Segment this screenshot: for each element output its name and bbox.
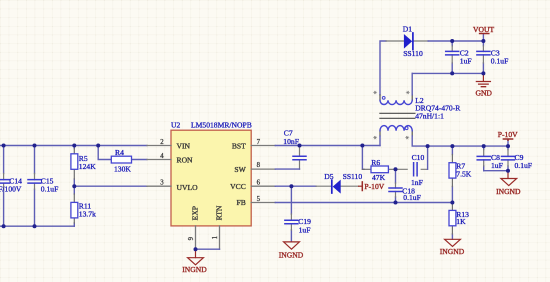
node BST/C7 junction <box>298 144 302 148</box>
capacitor C3 <box>477 41 508 73</box>
svg-text:INGND: INGND <box>496 187 521 196</box>
capacitor C2 <box>446 41 472 73</box>
L2 core <box>380 113 415 118</box>
svg-text:0.1uF: 0.1uF <box>515 161 533 170</box>
capacitor C19 <box>285 214 311 235</box>
svg-text:47nH/1:1: 47nH/1:1 <box>415 112 444 121</box>
L2 polarity marks upper <box>373 91 376 94</box>
transformer L2 <box>373 41 461 139</box>
svg-text:P-10V: P-10V <box>364 182 384 191</box>
svg-text:R6: R6 <box>371 158 380 167</box>
node BST/R6 junction <box>360 144 364 148</box>
svg-text:RON: RON <box>177 155 194 164</box>
node C9 bottom junction <box>506 169 510 173</box>
diode D1 <box>386 25 428 59</box>
svg-text:EXP: EXP <box>191 206 200 220</box>
svg-text:SW: SW <box>234 165 246 174</box>
capacitor C18 <box>389 169 421 202</box>
wire UVLO line <box>74 185 147 187</box>
node EXP junction <box>194 247 198 251</box>
svg-text:INGND: INGND <box>440 247 465 256</box>
node C3/VOUT junction <box>481 39 485 43</box>
svg-text:R4: R4 <box>115 148 124 157</box>
svg-text:INGND: INGND <box>182 265 207 274</box>
svg-text:0.1uF: 0.1uF <box>41 185 59 194</box>
capacitor C9 <box>502 146 533 171</box>
wire D1 cathode run <box>428 40 483 42</box>
svg-text:1K: 1K <box>456 217 466 226</box>
node C9/P-10V junction <box>506 144 510 148</box>
IC U2 LM5018MR/NOPB <box>171 120 252 225</box>
resistor R6 <box>362 158 395 182</box>
L2 polarity marks lower <box>373 136 376 139</box>
svg-text:U2: U2 <box>171 120 180 129</box>
resistor R11 <box>71 186 96 226</box>
pin 7 BST <box>232 139 275 151</box>
ground INGND under C8/C9 <box>496 171 521 196</box>
svg-text:9: 9 <box>188 236 195 240</box>
pin 1 RTN <box>212 205 224 249</box>
svg-text:5: 5 <box>257 196 261 203</box>
node C8 top junction <box>482 144 486 148</box>
ground GND earth <box>475 73 492 97</box>
power port P-10V at D5 <box>359 182 385 191</box>
pin 5 FB <box>237 196 276 207</box>
svg-text:VOUT: VOUT <box>473 25 494 34</box>
wire C19 riser <box>290 186 292 242</box>
resistor R5 <box>71 146 96 187</box>
wire C10 riser <box>427 146 429 169</box>
node VCC/C19 junction <box>289 184 293 188</box>
pin 8 SW <box>234 162 275 174</box>
svg-text:1uF: 1uF <box>460 56 472 65</box>
pin 4 RON <box>147 153 193 165</box>
diode D5 <box>316 172 362 194</box>
wire VCC run <box>275 185 316 187</box>
wire C14 riser <box>3 146 5 227</box>
svg-text:4: 4 <box>160 153 164 160</box>
capacitor C7 <box>283 129 306 169</box>
svg-text:7: 7 <box>257 139 261 146</box>
svg-text:1uF: 1uF <box>491 161 503 170</box>
ground INGND under C19 <box>279 242 304 260</box>
svg-text:SS110: SS110 <box>403 49 423 58</box>
svg-text:P-10V: P-10V <box>498 130 518 139</box>
ground INGND under IC <box>182 249 207 274</box>
svg-text:INGND: INGND <box>279 250 304 259</box>
node VIN/C15 junction <box>33 144 37 148</box>
node bottom rail C15 junction <box>33 224 37 228</box>
svg-text:1: 1 <box>212 236 219 239</box>
svg-text:0.1uF: 0.1uF <box>491 56 509 65</box>
wire C15 riser <box>34 146 36 227</box>
wire D1 anode riser <box>380 41 386 95</box>
node FB/R7/R13 junction <box>450 201 454 205</box>
capacitor C8 <box>477 146 503 171</box>
wire BST run <box>275 145 380 147</box>
svg-text:8: 8 <box>257 162 261 169</box>
wire C8/C9 bottom <box>484 170 508 172</box>
node C3/GND junction <box>481 71 485 75</box>
pin 3 UVLO <box>147 180 198 192</box>
node bottom rail C14 junction <box>2 224 6 228</box>
L2 lower winding <box>380 131 412 136</box>
svg-text:RTN: RTN <box>215 205 224 220</box>
pin 9 EXP <box>188 206 200 249</box>
svg-text:GND: GND <box>475 88 492 97</box>
svg-text:UVLO: UVLO <box>177 183 199 192</box>
resistor R13 <box>449 203 469 240</box>
svg-text:10nF: 10nF <box>283 137 299 146</box>
pin 6 VCC <box>230 180 275 191</box>
svg-text:VCC: VCC <box>230 182 246 191</box>
wire SW to C7 <box>275 168 299 170</box>
power port VOUT <box>473 25 494 41</box>
L2 upper winding <box>380 95 412 101</box>
svg-text:LM5018MR/NOPB: LM5018MR/NOPB <box>191 120 252 129</box>
svg-text:D1: D1 <box>403 25 412 34</box>
svg-text:uF/100V: uF/100V <box>0 185 22 194</box>
svg-text:BST: BST <box>232 141 246 150</box>
node R7 top junction <box>450 144 454 148</box>
wire secondary bottom run <box>412 72 483 74</box>
wire R6 riser <box>362 146 364 170</box>
capacitor C10 <box>396 153 428 187</box>
wire left bottom rail <box>0 225 74 227</box>
svg-text:D5: D5 <box>324 172 333 181</box>
svg-text:47K: 47K <box>372 173 386 182</box>
node UVLO/R5/R11 junction <box>72 184 76 188</box>
svg-text:C19: C19 <box>298 217 311 226</box>
wire RTN to EXP <box>196 248 220 250</box>
resistor R4 <box>98 146 147 174</box>
ground INGND under R13 <box>440 239 465 256</box>
power port P-10V top right <box>498 130 518 146</box>
capacitor C14 <box>0 174 22 194</box>
node VIN/R5 junction <box>72 144 76 148</box>
svg-text:130K: 130K <box>114 165 131 174</box>
svg-text:2: 2 <box>160 139 164 146</box>
wire lower winding right terminal / right run <box>412 136 508 146</box>
wire lower winding left terminal <box>379 136 381 146</box>
svg-text:6: 6 <box>257 180 261 187</box>
svg-text:7.5K: 7.5K <box>456 169 471 178</box>
node R6/C10/C18 junction <box>394 167 398 171</box>
svg-text:13.7k: 13.7k <box>79 210 96 219</box>
svg-text:124K: 124K <box>79 162 96 171</box>
wire FB run <box>275 202 452 204</box>
pin 2 VIN <box>147 139 191 151</box>
node VIN/C14 junction <box>2 144 6 148</box>
svg-text:VIN: VIN <box>177 141 191 150</box>
capacitor C15 <box>28 174 58 194</box>
resistor R7 <box>449 146 472 202</box>
wire upper winding right riser <box>411 73 413 94</box>
node VIN/R4 junction <box>96 144 100 148</box>
svg-text:C10: C10 <box>412 153 425 162</box>
wire VIN rail <box>0 145 147 147</box>
svg-text:3: 3 <box>160 180 164 187</box>
svg-text:1uF: 1uF <box>299 226 311 235</box>
node C18/FB junction <box>394 201 398 205</box>
node C2 bottom junction <box>450 71 454 75</box>
svg-text:0.1uF: 0.1uF <box>403 193 421 202</box>
node C2 top junction <box>450 39 454 43</box>
svg-text:FB: FB <box>237 198 246 207</box>
svg-text:1nF: 1nF <box>411 178 423 187</box>
svg-text:SS110: SS110 <box>343 172 363 181</box>
node C10 riser junction <box>426 144 430 148</box>
